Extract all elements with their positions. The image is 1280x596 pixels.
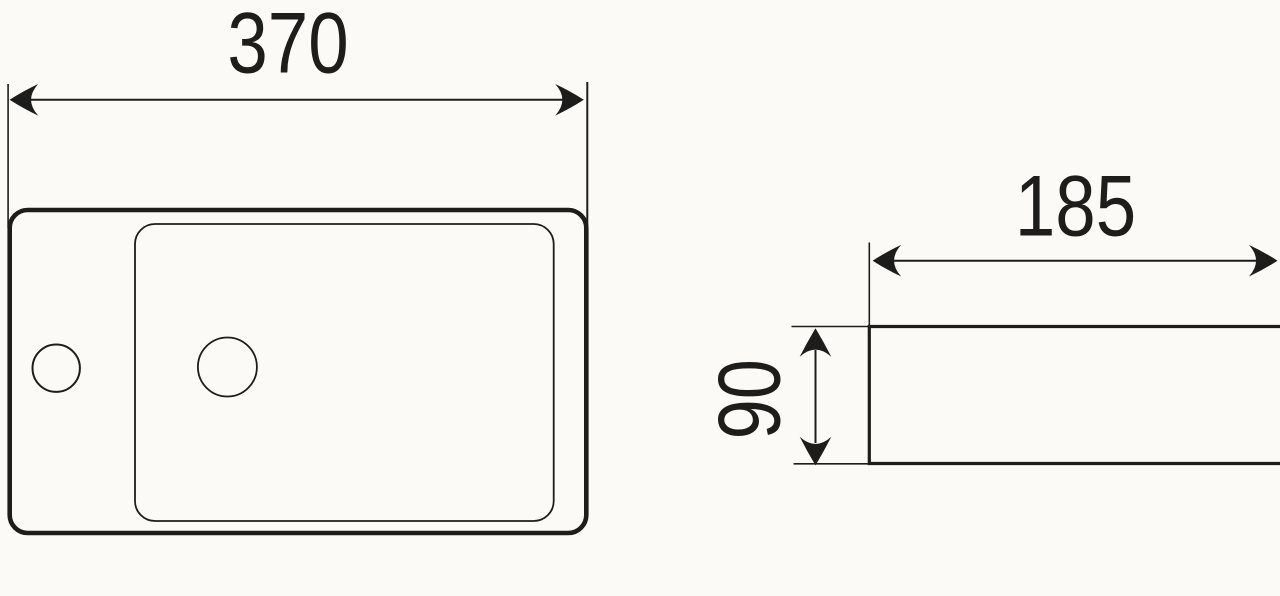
svg-text:370: 370 — [227, 0, 348, 91]
extension line left (370) — [7, 84, 9, 228]
dimension line 185 — [892, 260, 1258, 262]
extension line right (370) — [586, 82, 588, 226]
arrowhead 370 right — [555, 84, 584, 116]
arrowhead 185 right — [1249, 245, 1278, 277]
basin outer outline (top view) — [10, 210, 587, 533]
arrowhead 370 left — [10, 84, 39, 116]
dimension line 370 — [30, 99, 564, 101]
extension line left (185) — [868, 243, 870, 331]
arrowhead 90 up — [800, 328, 832, 357]
arrowhead 90 down — [800, 437, 832, 466]
svg-text:90: 90 — [701, 359, 799, 439]
basin inner bowl outline — [135, 224, 554, 521]
svg-text:185: 185 — [1015, 158, 1136, 254]
dimension line 90 — [815, 350, 817, 443]
left tap hole circle — [33, 345, 80, 392]
extension line top (90) — [792, 326, 870, 328]
arrowhead 185 left — [873, 245, 902, 277]
drain hole circle — [198, 338, 257, 397]
side view slab outline — [869, 327, 1280, 464]
extension line bottom (90) — [794, 463, 869, 465]
